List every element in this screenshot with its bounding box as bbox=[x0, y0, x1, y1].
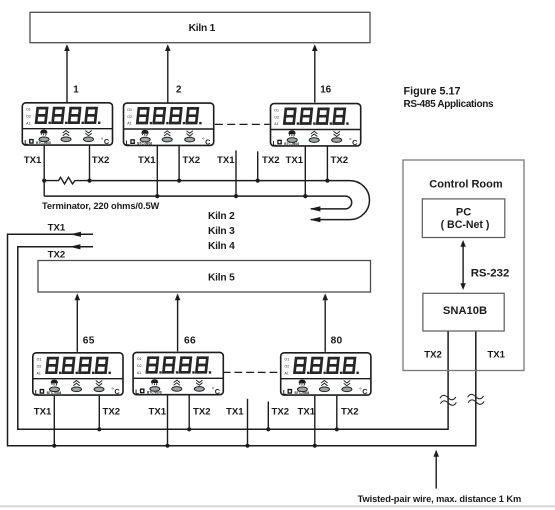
wire controller 16 TX2 drop bbox=[326, 147, 328, 181]
wire controller 2 to Kiln 1 bbox=[165, 44, 171, 102]
wire hidden controllers TX1 drop (bottom row) bbox=[247, 399, 249, 446]
svg-text:Kiln 1: Kiln 1 bbox=[189, 23, 216, 34]
Kiln 1 box bbox=[30, 12, 370, 42]
svg-text:TX1: TX1 bbox=[226, 406, 244, 417]
wire hidden controllers TX2 drop bbox=[257, 151, 259, 180]
controller 80 bbox=[281, 353, 371, 397]
svg-text:TX2: TX2 bbox=[262, 155, 280, 166]
figure caption bbox=[404, 86, 494, 111]
Control Room box bbox=[403, 160, 524, 371]
junction dots on bottom TX2 bus bbox=[97, 427, 339, 431]
wire controller 66 TX1 drop bbox=[167, 395, 169, 445]
svg-text:66: 66 bbox=[184, 335, 196, 346]
resistor terminator 220 ohms/0.5W bbox=[44, 177, 89, 184]
TX2 bus (upper) with u-turn arrow to kilns 2-4 bbox=[90, 181, 370, 223]
dashed continuation controllers 3..15 bbox=[215, 123, 270, 125]
svg-text:RS-485 Applications: RS-485 Applications bbox=[404, 99, 494, 110]
controller 66 bbox=[133, 352, 223, 396]
wire controller 2 TX1 drop bbox=[156, 146, 158, 196]
svg-text:Kiln 4: Kiln 4 bbox=[208, 241, 235, 252]
svg-text:TX2: TX2 bbox=[341, 406, 359, 417]
svg-text:SNA10B: SNA10B bbox=[443, 305, 487, 317]
svg-text:TX1: TX1 bbox=[138, 155, 156, 166]
svg-text:65: 65 bbox=[83, 335, 95, 346]
wire controller 66 TX2 drop bbox=[188, 395, 190, 429]
controller 65 bbox=[33, 353, 123, 397]
RS-232 double arrow PC to SNA10B bbox=[460, 240, 465, 290]
svg-text:TX2: TX2 bbox=[424, 350, 442, 361]
wire controller 65 TX2 drop bbox=[98, 396, 100, 430]
wire break squiggle on TX2 wire bbox=[440, 394, 457, 406]
TX1 feed line from control room to kilns (left riser) bbox=[8, 232, 476, 446]
svg-text:Kiln 5: Kiln 5 bbox=[208, 273, 235, 284]
dashed continuation controllers 67..79 bbox=[223, 371, 279, 373]
Kiln 5 box bbox=[38, 261, 371, 293]
svg-text:( BC-Net ): ( BC-Net ) bbox=[441, 219, 490, 231]
TX1 bus (lower) with u-turn arrow to kilns 2-4 bbox=[44, 196, 351, 211]
svg-text:2: 2 bbox=[176, 85, 182, 96]
wire controller 80 TX1 drop bbox=[314, 396, 316, 446]
controller 16 bbox=[271, 104, 361, 148]
svg-text:Kiln 3: Kiln 3 bbox=[208, 226, 235, 237]
wire controller 66 to Kiln 5 bbox=[175, 293, 181, 351]
svg-text:16: 16 bbox=[320, 85, 331, 96]
PC (BC-Net) box bbox=[422, 199, 505, 238]
svg-text:TX1: TX1 bbox=[24, 155, 42, 166]
svg-text:RS-232: RS-232 bbox=[471, 267, 510, 279]
junction dots on TX1 lower bus bbox=[155, 194, 307, 198]
controller 2 bbox=[124, 103, 214, 147]
SNA10B box bbox=[423, 293, 504, 331]
svg-text:TX1: TX1 bbox=[286, 155, 304, 166]
wire controller 65 to Kiln 5 bbox=[75, 293, 81, 351]
svg-text:TX1: TX1 bbox=[149, 406, 167, 417]
wire hidden controllers TX1 drop bbox=[235, 150, 237, 196]
svg-text:TX2: TX2 bbox=[193, 406, 211, 417]
wire controller 16 to Kiln 1 bbox=[312, 44, 318, 102]
wire hidden controllers TX2 drop (bottom row) bbox=[267, 402, 269, 430]
wire controller 65 TX1 drop bbox=[53, 396, 55, 446]
junction dots on bottom TX1 bus bbox=[52, 444, 317, 448]
svg-text:TX1: TX1 bbox=[487, 350, 505, 361]
wire controller 1 TX2 drop bbox=[89, 146, 91, 181]
page edge line bbox=[0, 505, 555, 507]
svg-text:Twisted-pair wire, max. distan: Twisted-pair wire, max. distance 1 Km bbox=[358, 494, 522, 504]
svg-text:PC: PC bbox=[456, 207, 471, 219]
svg-text:TX1: TX1 bbox=[298, 406, 316, 417]
wire controller 1 TX1 drop bbox=[43, 146, 45, 196]
junction dots on TX2 upper bus bbox=[42, 179, 329, 183]
wire controller 80 to Kiln 5 bbox=[322, 293, 328, 351]
twisted pair callout arrow bbox=[433, 450, 439, 489]
svg-text:TX1: TX1 bbox=[217, 155, 235, 166]
svg-text:Kiln 2: Kiln 2 bbox=[208, 211, 235, 222]
svg-text:TX1: TX1 bbox=[34, 406, 52, 417]
svg-text:1: 1 bbox=[73, 85, 79, 96]
svg-text:TX2: TX2 bbox=[183, 155, 201, 166]
svg-text:TX2: TX2 bbox=[48, 250, 66, 261]
svg-text:TX1: TX1 bbox=[48, 222, 66, 233]
wire controller 16 TX1 drop bbox=[304, 147, 306, 197]
svg-text:TX2: TX2 bbox=[272, 406, 290, 417]
wire controller 1 to Kiln 1 bbox=[64, 44, 70, 102]
svg-text:TX2: TX2 bbox=[103, 406, 121, 417]
wire break squiggle on TX1 wire bbox=[467, 393, 484, 405]
wire controller 80 TX2 drop bbox=[336, 396, 338, 430]
svg-text:TX2: TX2 bbox=[92, 155, 110, 166]
svg-text:Terminator, 220 ohms/0.5W: Terminator, 220 ohms/0.5W bbox=[42, 201, 160, 211]
svg-text:Control Room: Control Room bbox=[429, 179, 503, 191]
svg-text:Figure 5.17: Figure 5.17 bbox=[404, 86, 461, 98]
wire controller 2 TX2 drop bbox=[178, 146, 180, 181]
controller 1 bbox=[22, 103, 112, 147]
svg-text:TX2: TX2 bbox=[331, 155, 349, 166]
TX2 feed line from control room to kilns (left riser) bbox=[18, 244, 448, 429]
svg-text:80: 80 bbox=[331, 335, 343, 346]
